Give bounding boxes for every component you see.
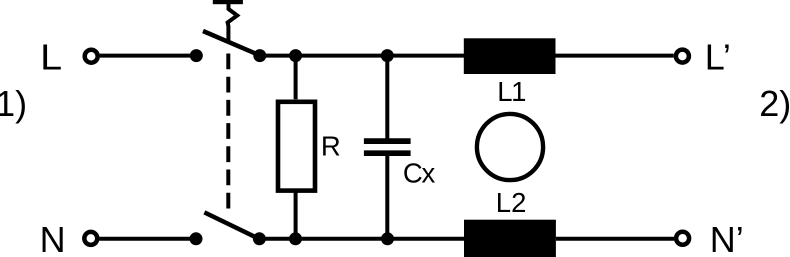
capacitor Cx: bottom plate [364, 150, 411, 156]
actuator zigzag (thermal element) [228, 4, 238, 42]
junction dot: resistor bottom node [289, 232, 302, 245]
wire: switch to inductor L1 [260, 54, 464, 58]
svg-text:L’: L’ [705, 37, 731, 78]
svg-text:N: N [40, 219, 66, 257]
terminal N (open circle) [84, 232, 97, 245]
svg-text:R: R [321, 130, 341, 161]
capacitor Cx: bottom lead wire [385, 155, 389, 239]
svg-text:2): 2) [759, 83, 790, 124]
svg-text:Cx: Cx [403, 158, 436, 189]
svg-text:L2: L2 [496, 187, 527, 218]
wire: L terminal to switch left contact [100, 54, 197, 58]
switch blade S1a (top pole) [203, 31, 260, 55]
capacitor Cx: top plate [364, 138, 411, 144]
resistor R: bottom lead wire [294, 193, 298, 239]
wire: L1 to L' terminal [556, 54, 674, 58]
mechanical link (dashed) [226, 54, 230, 214]
capacitor Cx: top lead wire [385, 56, 389, 139]
common-mode choke core (circle) [477, 114, 543, 180]
svg-text:N’: N’ [710, 219, 744, 257]
svg-text:L1: L1 [497, 76, 525, 107]
wire: L2 to N' terminal [556, 237, 674, 241]
svg-text:L: L [40, 37, 62, 78]
terminal L (open circle) [85, 50, 98, 63]
actuator bar (top) [213, 0, 243, 4]
junction dot: top switch right contact [253, 49, 266, 62]
terminal N' (open circle) [676, 232, 689, 245]
resistor R: top lead wire [294, 56, 298, 100]
terminal L' (open circle) [676, 50, 689, 63]
junction dot: bottom switch left contact [190, 232, 203, 245]
junction dot: top switch left contact [190, 49, 203, 62]
wire: switch to inductor L2 [259, 237, 464, 241]
switch blade S1b (bottom pole) [204, 212, 259, 239]
junction dot: resistor top node [289, 49, 302, 62]
inductor L1 body [464, 38, 556, 74]
svg-text:1): 1) [0, 83, 27, 124]
inductor L2 body [464, 220, 556, 257]
wire: N terminal to switch left contact [99, 237, 196, 241]
junction dot: bottom switch right contact [253, 232, 266, 245]
junction dot: capacitor top node [381, 49, 394, 62]
resistor R body [278, 102, 315, 191]
junction dot: capacitor bottom node [381, 232, 394, 245]
